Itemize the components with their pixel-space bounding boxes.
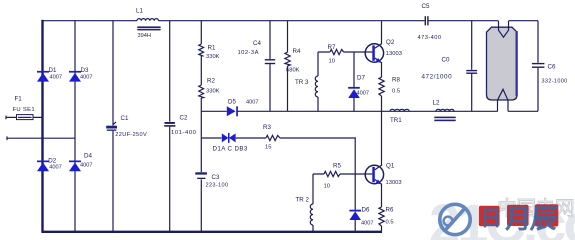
svg-text:4007: 4007 xyxy=(49,165,61,171)
capacitor C4 xyxy=(265,59,275,60)
svg-text:22UF-250V: 22UF-250V xyxy=(115,132,147,138)
wire R4 column xyxy=(287,21,289,112)
wire left bus xyxy=(41,20,43,233)
wire C4 column xyxy=(269,21,271,112)
svg-text:R8: R8 xyxy=(392,76,400,83)
svg-text:13003: 13003 xyxy=(386,180,402,186)
wire Q1 collector xyxy=(381,111,383,166)
diode D6 xyxy=(349,210,361,212)
svg-text:332-1000: 332-1000 xyxy=(542,79,568,85)
svg-text:月: 月 xyxy=(504,204,531,234)
svg-text:辰: 辰 xyxy=(529,203,560,234)
lamp top filament xyxy=(499,21,509,38)
wire C6 column xyxy=(537,21,539,112)
svg-text:102-3A: 102-3A xyxy=(238,50,259,56)
watermark red box 3 xyxy=(535,204,559,226)
wire oscillator rail xyxy=(201,137,355,174)
svg-text:C0: C0 xyxy=(442,56,450,63)
svg-text:C4: C4 xyxy=(253,40,261,47)
resistor R8 xyxy=(379,77,384,96)
svg-text:D7: D7 xyxy=(357,74,365,81)
svg-text:473-400: 473-400 xyxy=(418,35,442,41)
resistor R5 xyxy=(324,171,340,176)
fuse F1 xyxy=(17,115,34,120)
svg-text:10: 10 xyxy=(329,58,335,64)
svg-text:Q1: Q1 xyxy=(386,163,395,170)
svg-text:L2: L2 xyxy=(433,99,440,106)
wire R1-R2-C3 column xyxy=(200,21,202,232)
wire TR3 column xyxy=(317,52,319,111)
watermark red box 1 xyxy=(479,206,500,226)
watermark logo ring xyxy=(440,204,470,234)
wire Q1 emitter xyxy=(381,184,383,232)
wire AC line 1 (fuse line) xyxy=(6,116,43,120)
capacitor C3 xyxy=(195,172,207,174)
wire TR2 column xyxy=(312,174,314,232)
svg-text:10: 10 xyxy=(324,184,330,190)
svg-text:D4: D4 xyxy=(84,153,92,160)
svg-text:472/1000: 472/1000 xyxy=(422,73,453,80)
transformer winding TR3 xyxy=(315,76,318,97)
lamp tube xyxy=(487,27,518,100)
capacitor C2 xyxy=(165,122,175,124)
svg-text:C2: C2 xyxy=(180,115,188,122)
resistor R7 xyxy=(330,49,344,54)
svg-text:4007: 4007 xyxy=(80,163,92,169)
diode D2 xyxy=(37,163,49,172)
transformer winding TR1 xyxy=(390,109,409,111)
wire AC line 2 xyxy=(7,136,75,140)
wire C2 column xyxy=(169,21,171,232)
wire D7 column xyxy=(353,52,355,111)
svg-text:4007: 4007 xyxy=(50,74,62,80)
svg-text:FU SE1: FU SE1 xyxy=(13,107,35,113)
wire Q2 emitter xyxy=(381,62,383,111)
capacitor C5 xyxy=(425,16,426,25)
svg-text:0.5: 0.5 xyxy=(386,220,394,226)
svg-text:223-100: 223-100 xyxy=(206,183,229,189)
diode D3 xyxy=(69,73,81,82)
diode D1 xyxy=(37,73,49,82)
svg-text:330K: 330K xyxy=(206,89,220,95)
wire Q1 base xyxy=(313,173,366,175)
svg-text:680K: 680K xyxy=(286,68,300,74)
wire Q2 base xyxy=(318,51,366,53)
svg-text:101-400: 101-400 xyxy=(171,130,197,136)
diode D4 xyxy=(69,163,81,172)
svg-text:330K: 330K xyxy=(206,54,220,60)
transistor Q2 xyxy=(365,44,383,62)
svg-text:4007: 4007 xyxy=(357,90,369,96)
capacitor C1 xyxy=(106,126,117,129)
svg-text:13003: 13003 xyxy=(386,51,402,57)
transformer winding TR2 xyxy=(310,204,313,225)
svg-text:C1: C1 xyxy=(121,115,129,122)
svg-text:TR 2: TR 2 xyxy=(296,197,310,204)
svg-text:R7: R7 xyxy=(328,44,336,51)
svg-text:L1: L1 xyxy=(136,7,143,14)
wire bridge column 2 xyxy=(74,21,76,232)
svg-text:F1: F1 xyxy=(15,96,23,103)
capacitor C6 xyxy=(532,63,545,64)
svg-text:D2: D2 xyxy=(48,158,56,165)
lamp bottom filament xyxy=(498,89,509,111)
resistor R4 xyxy=(285,52,290,66)
wire C0 column xyxy=(471,21,473,112)
diac D1A-D3B xyxy=(222,133,229,142)
capacitor C0 xyxy=(466,70,477,71)
transistor Q1 xyxy=(365,165,383,183)
svg-text:R4: R4 xyxy=(293,48,301,55)
svg-text:TR1: TR1 xyxy=(390,117,402,124)
svg-text:C6: C6 xyxy=(548,63,556,70)
svg-text:0.5: 0.5 xyxy=(392,88,400,94)
diode D7 xyxy=(348,87,360,89)
svg-text:R5: R5 xyxy=(333,162,341,169)
svg-text:394H: 394H xyxy=(138,33,151,39)
resistor R1 xyxy=(199,44,204,56)
wire D6 column xyxy=(354,174,356,232)
svg-text:15: 15 xyxy=(265,144,271,150)
svg-text:4007: 4007 xyxy=(246,99,258,105)
wire Q2 collector xyxy=(381,21,383,45)
resistor R3 xyxy=(266,135,280,140)
svg-text:D3: D3 xyxy=(81,67,89,74)
svg-text:TR 3: TR 3 xyxy=(295,79,309,86)
svg-text:4007: 4007 xyxy=(361,220,373,226)
diode D5 xyxy=(227,106,236,116)
svg-text:C3: C3 xyxy=(212,174,220,181)
svg-text:D5: D5 xyxy=(228,98,236,105)
svg-text:日: 日 xyxy=(481,208,502,231)
svg-text:4007: 4007 xyxy=(80,74,92,80)
svg-text:C5: C5 xyxy=(422,3,430,10)
inductor L2 xyxy=(436,109,454,111)
svg-text:R6: R6 xyxy=(386,207,394,214)
resistor R6 xyxy=(379,207,384,226)
watermark red box 2 xyxy=(507,205,529,226)
wire mid rail (rectifier output) xyxy=(201,110,538,112)
svg-text:D6: D6 xyxy=(362,207,370,214)
svg-text:Q2: Q2 xyxy=(386,39,395,46)
svg-text:R2: R2 xyxy=(207,77,215,84)
wire C1 column xyxy=(112,21,114,232)
wire top bus xyxy=(43,20,539,22)
svg-text:R1: R1 xyxy=(208,45,216,52)
inductor L1 xyxy=(137,19,159,21)
svg-text:D1: D1 xyxy=(49,67,57,74)
resistor R2 xyxy=(199,85,204,98)
svg-text:D1A C DB3: D1A C DB3 xyxy=(213,145,248,152)
wire bottom bus xyxy=(42,231,383,233)
svg-text:R3: R3 xyxy=(263,124,271,131)
